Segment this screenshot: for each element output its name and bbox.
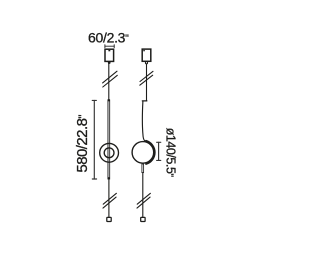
svg-text:60/2.3": 60/2.3": [88, 30, 129, 46]
svg-text:580/22.8": 580/22.8": [74, 115, 91, 173]
svg-text:ø140/5.5": ø140/5.5": [163, 128, 177, 178]
